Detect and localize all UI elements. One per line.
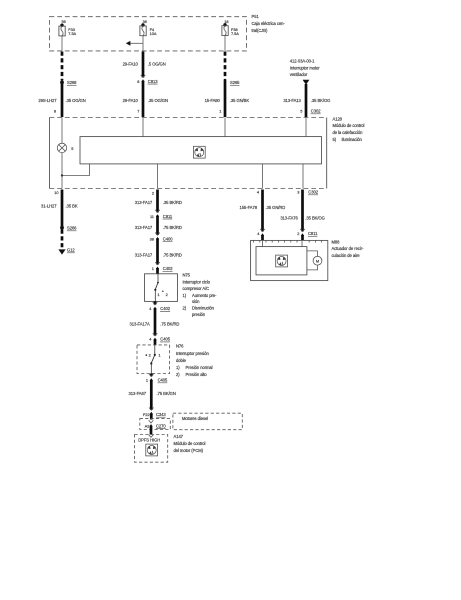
svg-text:Interruptor presión: Interruptor presión: [176, 351, 209, 356]
svg-text:1: 1: [219, 109, 221, 114]
svg-text:155-FA78: 155-FA78: [240, 205, 258, 210]
connector C405 pin 4 (inline break): [153, 333, 158, 336]
svg-text:C811: C811: [163, 214, 173, 219]
motor M circle: [307, 251, 318, 270]
svg-text:Interruptor motor: Interruptor motor: [290, 65, 320, 70]
svg-text:313-FA17: 313-FA17: [135, 252, 153, 257]
svg-text:15-FA80: 15-FA80: [205, 98, 221, 103]
svg-text:313-FA13: 313-FA13: [283, 98, 301, 103]
actuator block (inner box): [256, 247, 307, 275]
svg-text:C813: C813: [148, 79, 158, 84]
svg-text:P51: P51: [252, 14, 260, 19]
wire 29S-LH27 .35 OG/GN (fuse F33 to A128 pin 8), dashed section to splice: [38, 52, 85, 118]
switch blade: [155, 283, 158, 290]
svg-text:.75 BK/RD: .75 BK/RD: [163, 225, 182, 230]
ground wire 31-LH27 .35 BK from A128 pin 10: [41, 190, 78, 255]
internal wire block to pin 2: [157, 164, 159, 189]
svg-text:29S-LH27: 29S-LH27: [38, 98, 57, 103]
svg-text:S265: S265: [230, 80, 240, 85]
svg-text:.5 OG/GN: .5 OG/GN: [148, 62, 166, 67]
actuator icon: [276, 255, 288, 267]
label P51 Caja electrica central (CJB): [252, 14, 286, 33]
svg-text:.75 BK/RD: .75 BK/RD: [160, 322, 179, 327]
connector C400 pin 38 (inline break): [155, 233, 160, 236]
svg-text:A147: A147: [174, 434, 184, 439]
svg-text:3: 3: [297, 190, 299, 195]
label N76 Interruptor presion doble: [176, 344, 213, 377]
wire end chevron into PCM: [149, 435, 154, 438]
svg-text:7.5A: 7.5A: [68, 31, 76, 36]
svg-text:313-FA17: 313-FA17: [135, 225, 153, 230]
svg-text:Interruptor ciclo: Interruptor ciclo: [183, 280, 211, 285]
svg-text:.35 GN/RD: .35 GN/RD: [266, 205, 286, 210]
connector C811 pin 11 (inline break): [155, 210, 160, 213]
diesel variant inline connector box (A2 / C270): [140, 419, 171, 435]
splice S268: [60, 81, 64, 85]
svg-text:31-LH27: 31-LH27: [41, 204, 57, 209]
wire fuse F4 output (inside CJB): [142, 36, 144, 51]
svg-text:38: 38: [150, 237, 154, 242]
wire 313-FA76 .35 BK/OG (A128 pin 3 to M88 pin 2): [280, 190, 324, 241]
junction node at lamp return: [61, 174, 63, 176]
svg-text:.35 OG/GN: .35 OG/GN: [66, 98, 86, 103]
svg-text:8: 8: [137, 79, 139, 84]
svg-text:.35 BK/OG: .35 BK/OG: [311, 98, 330, 103]
svg-text:S266: S266: [67, 226, 77, 231]
air recirculation actuator M88 box: [251, 240, 328, 280]
svg-text:29-FA10: 29-FA10: [123, 62, 139, 67]
wire 15-FA80 .35 GN/BK (fuse F38 to A128 pin 1), dashed to splice: [205, 52, 250, 118]
connector C402 pin 1 (inline break): [155, 262, 160, 265]
svg-text:412-03A-00-1: 412-03A-00-1: [290, 59, 315, 64]
svg-text:S268: S268: [67, 80, 77, 85]
switch pole from pin: [157, 274, 159, 283]
diesel engines note box (Motores diesel): [173, 413, 242, 430]
svg-text:11: 11: [150, 214, 154, 219]
internal wire pin 5 to block: [305, 118, 307, 137]
svg-text:36: 36: [143, 19, 147, 24]
svg-text:tral(CJB): tral(CJB): [252, 28, 268, 33]
svg-text:N75: N75: [183, 273, 191, 278]
off-page feed from fan motor switch 412-03A-00-1: [283, 59, 330, 117]
svg-text:C811: C811: [308, 231, 318, 236]
svg-text:Presión normal: Presión normal: [186, 365, 213, 370]
wire 313-FA17 .75 BK/RD (C811 to C400): [156, 216, 159, 235]
internal wire pin 1 to block: [224, 118, 226, 137]
A/C cycling switch N75 box: [145, 274, 178, 302]
wire 313-FA13 .35 BK/OG to A128 pin 5: [305, 84, 308, 117]
svg-text:.75 BK/GN: .75 BK/GN: [157, 391, 176, 396]
internal wire block to pin 3: [302, 164, 304, 189]
connector C343 pin F22 (PCM): [149, 408, 154, 411]
svg-text:5: 5: [71, 146, 73, 151]
svg-text:G12: G12: [67, 248, 75, 253]
wire 313-FA67 .75 BK/GN (N76 pin 1 via C405 to PCM): [129, 374, 176, 420]
svg-text:56: 56: [62, 19, 66, 24]
svg-text:Módulo de control: Módulo de control: [333, 123, 365, 128]
internal wire pin 8 to lamp: [61, 118, 63, 144]
switch exit to pin 1: [150, 364, 152, 374]
svg-text:8: 8: [54, 109, 56, 114]
wire 29-FA10 .35 OG/GN (C813 to A128 pin 7): [142, 81, 145, 117]
wire 155-FA78 .35 GN/RD (A128 pin 4 to M88 pin 4): [240, 190, 286, 241]
svg-text:C402: C402: [163, 266, 173, 271]
branch arrow to other circuits (points left): [130, 42, 143, 44]
svg-text:313-FA17A: 313-FA17A: [130, 322, 150, 327]
internal wire lamp to module block: [62, 153, 90, 176]
PCM A147 DPFS HIGH input box (dashed): [135, 435, 168, 463]
svg-text:1: 1: [158, 353, 160, 358]
internal wires into actuator block: [262, 240, 264, 246]
fuse F33 7.5A pin 56: [59, 19, 77, 51]
svg-text:C343: C343: [156, 412, 166, 417]
svg-text:A2: A2: [145, 423, 150, 428]
blower control icon inside block: [193, 146, 205, 158]
svg-text:presión: presión: [192, 312, 206, 317]
switch blade: [151, 355, 155, 363]
svg-text:DPFS HIGH: DPFS HIGH: [138, 438, 160, 443]
svg-text:2: 2: [152, 190, 154, 195]
svg-text:M88: M88: [332, 239, 341, 244]
internal wire pin 10 stub: [61, 176, 63, 189]
fuse F4 10A pin 36: [126, 19, 157, 51]
fuse F38 7.5A pin 18: [222, 19, 239, 51]
svg-text:M: M: [316, 258, 319, 263]
splice S266: [60, 226, 64, 230]
svg-text:culación de aire: culación de aire: [332, 253, 361, 258]
svg-text:del motor (PCM): del motor (PCM): [174, 448, 204, 453]
wire 313-FA17A .75 BK/RD (N75 pin 4 via C402 to C405): [130, 301, 180, 345]
label A128 Modulo de control de la calefaccion: [333, 116, 365, 141]
label N75 Interruptor ciclo compresor A/C: [183, 273, 218, 317]
svg-text:29-FA10: 29-FA10: [123, 98, 139, 103]
svg-text:Presión alto: Presión alto: [186, 372, 208, 377]
svg-text:.35 GN/BK: .35 GN/BK: [230, 98, 250, 103]
module electronics block (inner box): [80, 137, 322, 164]
svg-text:.35 OG/GN: .35 OG/GN: [148, 98, 168, 103]
svg-text:313-FA67: 313-FA67: [129, 391, 147, 396]
wire 313-FA17 .75 BK/RD (C400 to C402): [156, 238, 159, 264]
wire fuse F33 output (inside CJB): [61, 36, 63, 51]
central junction box P51 (CJB) dashed enclosure: [50, 17, 247, 51]
svg-text:Aumento pre-: Aumento pre-: [192, 293, 217, 298]
svg-text:sión: sión: [192, 299, 200, 304]
ground G12: [58, 249, 65, 254]
svg-text:1: 1: [146, 378, 148, 383]
svg-text:C302: C302: [311, 109, 321, 114]
svg-text:N76: N76: [176, 344, 184, 349]
svg-text:.35 BK: .35 BK: [66, 204, 78, 209]
svg-text:F22: F22: [143, 412, 150, 417]
svg-text:5: 5: [300, 109, 302, 114]
svg-text:ventilador: ventilador: [290, 72, 308, 77]
svg-text:7.5A: 7.5A: [231, 31, 239, 36]
svg-text:.35 BK/OG: .35 BK/OG: [305, 215, 324, 220]
internal wire pin 7 to block: [142, 118, 144, 137]
svg-text:Módulo de control: Módulo de control: [174, 441, 206, 446]
svg-text:10A: 10A: [150, 31, 157, 36]
heater control module A128 enclosure (dashed top/bottom, solid sides): [50, 118, 327, 189]
svg-text:2: 2: [166, 292, 168, 297]
svg-text:313-FA76: 313-FA76: [280, 215, 298, 220]
svg-text:1: 1: [157, 292, 159, 297]
svg-text:C405: C405: [160, 337, 170, 342]
wire 313-FA17 .35 BK/RD from A128 pin 2: [135, 190, 182, 275]
svg-text:7: 7: [137, 109, 139, 114]
svg-text:C270: C270: [156, 423, 166, 428]
connector C813 pin 8 (inline break): [141, 75, 146, 78]
wire 29-FA10 .5 OG/GN (fuse F4 to connector C813): [123, 52, 168, 118]
dual pressure switch N76 box (dashed): [137, 345, 170, 374]
pressure sensor icon: [146, 444, 158, 456]
svg-text:2: 2: [297, 231, 299, 236]
svg-text:de la calefacción: de la calefacción: [333, 130, 364, 135]
svg-text:Actuador de recir-: Actuador de recir-: [332, 246, 365, 251]
label M88 Actuador de recirculacion de aire: [332, 239, 365, 258]
svg-text:.35 BK/RD: .35 BK/RD: [163, 200, 182, 205]
svg-text:Caja eléctrica cen-: Caja eléctrica cen-: [252, 21, 286, 26]
svg-text:A128: A128: [333, 116, 343, 121]
svg-text:C405: C405: [158, 378, 168, 383]
svg-text:Iluminación: Iluminación: [342, 137, 363, 142]
svg-text:.75 BK/RD: .75 BK/RD: [163, 252, 182, 257]
svg-text:C400: C400: [163, 237, 173, 242]
illumination lamp (5): [57, 143, 66, 152]
switch pole from pin 4: [154, 345, 156, 355]
connector comb ticks on top edge: [254, 240, 322, 242]
internal wire block to pin 4: [262, 164, 264, 189]
wire fuse F38 output (inside CJB): [224, 36, 226, 51]
down arrow into wire: [303, 80, 310, 85]
svg-text:doble: doble: [176, 358, 187, 363]
svg-text:1: 1: [152, 266, 154, 271]
splice S265: [224, 79, 227, 82]
svg-text:C402: C402: [160, 306, 170, 311]
svg-text:2: 2: [149, 353, 151, 358]
label A147 Modulo de control del motor (PCM): [174, 434, 206, 453]
svg-text:Disminución: Disminución: [192, 306, 215, 311]
switch exit to pin 4: [154, 290, 156, 302]
svg-text:compresor A/C: compresor A/C: [183, 286, 210, 291]
svg-text:Motores diesel: Motores diesel: [182, 416, 208, 421]
svg-text:C302: C302: [308, 190, 318, 195]
svg-text:313-FA17: 313-FA17: [135, 200, 153, 205]
